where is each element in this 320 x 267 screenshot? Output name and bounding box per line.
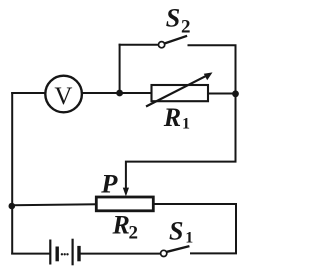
node B (junction of R1 right lead and right rail) (232, 90, 239, 97)
battery dots (more cells) (61, 253, 63, 255)
wire battery left lead (12, 253, 49, 255)
switch S1 pivot circle (161, 250, 167, 256)
svg-text:R: R (163, 103, 181, 132)
wire voltmeter left lead (12, 92, 45, 94)
battery cell plate short thick (right) (77, 248, 80, 260)
switch S1 arm (167, 246, 188, 251)
battery cell plate long (right) (71, 240, 73, 264)
battery cell plate long (left) (49, 241, 51, 264)
switch S2 pivot circle (159, 42, 165, 48)
wire R1 right lead (208, 93, 236, 95)
wire to S2 pivot (120, 44, 159, 46)
node C (junction on left rail with R2 lead) (9, 203, 16, 210)
wire S2 branch vertical (119, 45, 121, 93)
svg-text:1: 1 (185, 230, 193, 247)
wire S2 right to right rail down to corner, across to wiper, down to P arrow (126, 45, 236, 190)
resistor R1 (variable) body (152, 85, 209, 101)
wire S1 pivot to battery (81, 253, 161, 255)
svg-text:R: R (112, 211, 130, 240)
resistor R1 arrow (diagonal) (147, 75, 208, 106)
svg-text:P: P (100, 168, 118, 198)
svg-text:2: 2 (129, 223, 139, 244)
svg-text:S: S (169, 217, 183, 246)
rheostat R2 body (96, 197, 153, 211)
switch S2 arm (165, 36, 186, 43)
wire R2 left lead (12, 204, 96, 205)
svg-text:1: 1 (182, 116, 190, 133)
voltmeter V (45, 76, 82, 113)
wire left vertical (battery negative up to voltmeter row) (11, 93, 13, 254)
wire R2 right lead, down right rail to bottom, left to S1 arm (153, 204, 236, 253)
svg-text:2: 2 (181, 17, 191, 38)
battery cell plate short thick (left) (56, 248, 59, 259)
svg-text:S: S (166, 4, 180, 33)
node A (junction of voltmeter wire and S2 branch) (116, 90, 123, 97)
wire voltmeter right lead to R1 left (82, 92, 152, 94)
arrowhead of potentiometer wiper P (123, 188, 129, 197)
svg-text:V: V (54, 83, 72, 110)
